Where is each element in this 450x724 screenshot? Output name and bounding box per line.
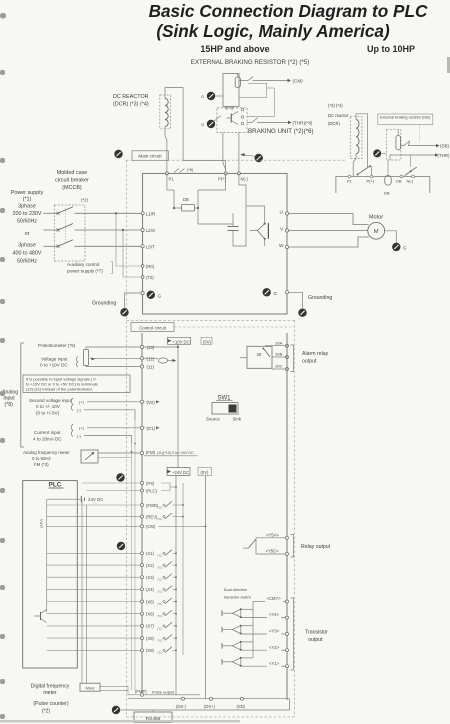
svg-text:(X1): (X1) (146, 551, 155, 556)
svg-text:(DCR) (*3) (*4): (DCR) (*3) (*4) (113, 102, 149, 108)
svg-text:Pulse output: Pulse output (152, 690, 175, 695)
svg-text:Source: Source (206, 417, 220, 422)
pin X3 (47, 576, 141, 578)
internal bus wires (197, 208, 199, 224)
svg-text:L3/T: L3/T (146, 244, 155, 249)
resistor DB mini (385, 176, 391, 186)
pin DX- (182, 697, 185, 700)
transistor Y4 (221, 610, 223, 616)
note box (23, 375, 130, 393)
wire W to motor (289, 237, 369, 247)
svg-text:(*11): (*11) (157, 639, 163, 643)
wire DCR2 top (356, 114, 368, 168)
signal symbol 12 (144, 357, 158, 359)
svg-text:(0 to +/-5V): (0 to +/-5V) (36, 410, 60, 415)
capacitor C (228, 226, 239, 228)
svg-text:Basic Connection Diagram to PL: Basic Connection Diagram to PLC (149, 1, 428, 21)
svg-text:3phase: 3phase (18, 204, 36, 210)
svg-text:G: G (158, 293, 162, 298)
wire DCR2 bottom (353, 154, 356, 177)
svg-text:(X3): (X3) (146, 575, 155, 580)
svg-text:output: output (302, 359, 317, 365)
main circuit label box (114, 150, 122, 158)
svg-text:PLC: PLC (49, 482, 62, 489)
wire CM (239, 77, 254, 81)
wire braking unit left leg to P(+) (223, 132, 226, 169)
svg-text:L2/S: L2/S (146, 228, 155, 233)
bus 24V (175, 476, 177, 696)
wire aux R0 (116, 213, 143, 266)
svg-text:(+): (+) (79, 401, 84, 405)
pin Y4 (241, 617, 267, 619)
wire N2 (410, 155, 412, 167)
potentiometer R pot (84, 350, 89, 366)
wires meter to FMP (100, 685, 128, 687)
svg-text:DC REACTOR: DC REACTOR (113, 94, 149, 100)
svg-text:(*1): (*1) (23, 197, 32, 203)
svg-text:Motor: Motor (369, 215, 383, 221)
svg-text:(*8): (*8) (5, 402, 14, 408)
svg-text:Transistor: Transistor (305, 630, 328, 636)
dashed frame mid (main circuit bottom) (127, 319, 297, 321)
svg-text:DB: DB (396, 178, 402, 183)
jumper DB-N (405, 167, 417, 176)
pin L2/S (141, 228, 144, 231)
svg-text:(PLC): (PLC) (146, 488, 158, 493)
pin L3/T (141, 245, 144, 248)
svg-text:Digital frequency: Digital frequency (31, 684, 70, 690)
svg-text:0 to +/- 10V: 0 to +/- 10V (36, 404, 61, 409)
svg-text:Up to 10HP: Up to 10HP (367, 44, 415, 54)
alarm relay K30 (247, 346, 272, 368)
svg-text:(DCR): (DCR) (328, 121, 340, 126)
grounding terminal left (141, 291, 144, 294)
svg-text:N(-): N(-) (241, 176, 249, 181)
svg-text:<CMY>: <CMY> (267, 596, 282, 601)
pin U (285, 212, 288, 215)
wire grounding left (125, 293, 142, 308)
pin L1/R (141, 212, 144, 215)
mini inverter box partial (336, 177, 430, 194)
transistor Q braking (230, 114, 232, 123)
arrow to ground at N wire (243, 155, 255, 156)
svg-text:(*3) (*4): (*3) (*4) (328, 103, 343, 108)
ground wire left of resistor box (215, 95, 223, 97)
ground symbol G2 (207, 120, 215, 128)
svg-text:DC reactor: DC reactor (328, 113, 349, 118)
svg-text:(+): (+) (79, 427, 84, 431)
svg-text:(0V): (0V) (203, 339, 212, 344)
wire V to motor (289, 230, 368, 232)
svg-text:(*11): (*11) (157, 651, 163, 655)
svg-text:W: W (279, 243, 284, 249)
jumper P1-P(+) (358, 166, 371, 175)
svg-text:(THR)(*8): (THR)(*8) (293, 120, 313, 125)
svg-text:(*11): (*11) (157, 517, 163, 521)
svg-text:Dual direction: Dual direction (224, 588, 247, 592)
svg-text:output: output (308, 637, 323, 643)
pin Y3 (241, 633, 267, 635)
svg-text:V: V (280, 227, 284, 233)
svg-text:(24V): (24V) (40, 519, 44, 528)
svg-text:0 to +10V DC: 0 to +10V DC (40, 363, 68, 368)
bus from 13 junction down (177, 347, 179, 468)
svg-text:(MCCB): (MCCB) (62, 185, 82, 191)
braking resistor DB2 dashed box (386, 130, 401, 160)
pin X8 (47, 637, 141, 639)
svg-text:<Y4>: <Y4> (269, 612, 280, 617)
inductor coil DCR (165, 99, 168, 127)
svg-text:(X6): (X6) (146, 612, 155, 617)
svg-text:BRAKING UNIT (*2)(*6): BRAKING UNIT (*2)(*6) (248, 128, 314, 135)
svg-text:Grounding: Grounding (308, 295, 332, 301)
breaker pole 3 (43, 245, 58, 247)
svg-text:or: or (25, 231, 30, 237)
svg-text:<Y2>: <Y2> (269, 645, 280, 650)
svg-text:Current input: Current input (34, 430, 61, 435)
pin FWD (47, 504, 141, 506)
pin X5 (47, 601, 141, 603)
svg-text:External braking resistor (DB): External braking resistor (DB) (380, 116, 431, 120)
svg-text:Control circuit: Control circuit (139, 326, 167, 331)
ground symbol G4 (373, 149, 381, 157)
scan smudges left edge (0, 13, 6, 719)
svg-text:200 to 230V: 200 to 230V (12, 211, 41, 217)
svg-text:(12)-(11) instead of the poten: (12)-(11) instead of the potentiometer. (26, 386, 93, 391)
svg-text:(C1): (C1) (147, 426, 156, 431)
pin X6 (47, 613, 141, 615)
ground symbol G3 (255, 154, 263, 162)
bus 0V (205, 476, 207, 699)
grounding terminal right (263, 288, 271, 296)
junction dots aux tap (115, 212, 117, 214)
battery 24V DC (80, 496, 82, 503)
svg-text:G: G (403, 246, 407, 251)
wire DX row (121, 699, 290, 710)
ground symbol bottom (112, 706, 120, 714)
svg-text:(*11): (*11) (157, 505, 163, 509)
svg-text:U: U (280, 210, 284, 216)
RS485 box (134, 712, 172, 723)
wire DCR bottom to P1 (165, 127, 167, 174)
label box External braking resistor (DB) (378, 114, 433, 125)
+24V DC supply box (167, 468, 190, 476)
pin Y2 (241, 649, 267, 651)
svg-text:(THR): (THR) (438, 153, 450, 158)
wire loop below CM (239, 83, 267, 97)
dashed frame left (126, 160, 128, 717)
relay Y5 (256, 537, 286, 539)
svg-text:(*11): (*11) (157, 590, 163, 594)
DC reactor DCR2 dashed box (350, 117, 362, 159)
inductor coil DCR2 (356, 119, 359, 153)
pin DX+ (210, 697, 213, 700)
inverter bridge U1 (267, 223, 269, 239)
svg-text:(*11): (*11) (157, 554, 163, 558)
svg-text:transistor switch: transistor switch (224, 596, 251, 600)
svg-text:(*11): (*11) (157, 614, 163, 618)
svg-text:<Y3>: <Y3> (269, 629, 280, 634)
svg-text:Power supply: Power supply (11, 190, 44, 196)
control circuit label box (131, 323, 174, 332)
svg-text:(CM): (CM) (293, 79, 304, 84)
svg-text:meter: meter (43, 690, 57, 696)
svg-text:(*11): (*11) (157, 566, 163, 570)
svg-text:FM (*3): FM (*3) (34, 462, 49, 467)
wire FM (98, 452, 142, 454)
svg-text:(11)(*10) 0 to +10V DC: (11)(*10) 0 to +10V DC (157, 451, 194, 455)
svg-text:15HP and above: 15HP and above (200, 44, 269, 54)
pin N(-) (237, 172, 240, 175)
pin 30A (265, 345, 287, 347)
svg-text:50/60Hz: 50/60Hz (17, 219, 37, 225)
svg-text:30C: 30C (275, 364, 282, 369)
resistor DB external (235, 77, 240, 88)
svg-text:(DX+): (DX+) (204, 704, 216, 709)
svg-text:(*11): (*11) (157, 626, 163, 630)
bus sink (182, 483, 184, 655)
pin CM (47, 525, 141, 527)
dashed frame top (126, 159, 345, 161)
pin V2 (140, 400, 143, 403)
svg-text:(X4): (X4) (146, 587, 155, 592)
svg-text:P(+): P(+) (367, 178, 375, 183)
alarm bracket (291, 345, 294, 372)
external braking resistor box (223, 74, 239, 107)
inverter main box (143, 173, 287, 314)
transistor Y1 (221, 659, 223, 665)
pin PS (82, 482, 140, 484)
wire U to motor (289, 214, 369, 225)
svg-text:Sink: Sink (233, 417, 242, 422)
svg-text:(X5): (X5) (146, 599, 155, 604)
svg-text:+10V DC: +10V DC (173, 339, 190, 344)
svg-text:P1: P1 (347, 178, 353, 183)
pin Y1 (241, 665, 267, 667)
meter FM box (81, 450, 98, 463)
pin CMY (253, 601, 265, 603)
svg-text:(DX-): (DX-) (176, 704, 187, 709)
pin 30B (272, 356, 287, 358)
ground electrode right (298, 309, 306, 317)
svg-text:<Y5C>: <Y5C> (266, 549, 280, 554)
svg-text:Main circuit: Main circuit (138, 154, 162, 159)
svg-text:Second voltage input: Second voltage input (29, 398, 73, 403)
PLC internal buses (46, 499, 48, 612)
svg-text:30A: 30A (275, 341, 282, 346)
svg-text:(FMP): (FMP) (135, 689, 147, 694)
svg-text:circuit breaker: circuit breaker (55, 178, 89, 184)
transistor Y2 (221, 643, 223, 649)
svg-text:(X9): (X9) (146, 648, 155, 653)
ground electrode left (120, 308, 128, 316)
svg-text:24V DC: 24V DC (88, 497, 103, 502)
svg-text:400 to 480V: 400 to 480V (12, 251, 41, 257)
svg-text:(DB): (DB) (440, 144, 450, 149)
svg-text:4 to 20mA DC: 4 to 20mA DC (33, 437, 62, 442)
svg-text:G: G (201, 122, 204, 127)
svg-text:DB: DB (384, 191, 390, 196)
+10V DC supply box (168, 337, 191, 344)
svg-text:power supply (*7): power supply (*7) (67, 269, 103, 274)
wire braking unit right (247, 88, 274, 116)
svg-text:(*2): (*2) (81, 198, 89, 203)
pin W (285, 245, 288, 248)
svg-text:input: input (4, 396, 16, 402)
svg-text:(*11): (*11) (157, 602, 163, 606)
transistor Y3 (221, 627, 223, 633)
right rail (286, 333, 288, 700)
svg-text:(Sink Logic, Mainly America): (Sink Logic, Mainly America) (156, 21, 390, 41)
svg-text:(SD): (SD) (237, 704, 246, 709)
braking unit dashed box (217, 108, 247, 132)
meter 60Hz box (80, 683, 100, 691)
breaker pole 1 (43, 212, 58, 214)
pin X4 (47, 588, 141, 590)
wire DCR top loop (165, 88, 226, 174)
pin PLC (87, 490, 141, 492)
pin C1 (140, 426, 143, 429)
svg-text:60Hz: 60Hz (85, 685, 94, 690)
pin X1 (47, 552, 141, 554)
svg-text:30: 30 (257, 352, 262, 357)
pin P1 (165, 172, 168, 175)
pin 30C (272, 368, 287, 370)
svg-text:G: G (201, 94, 204, 99)
pin SD (241, 697, 244, 700)
wire braking unit N leg (238, 132, 240, 173)
wire grounding right (289, 292, 303, 308)
svg-text:G: G (274, 291, 278, 296)
svg-text:50/60Hz: 50/60Hz (17, 259, 37, 265)
svg-text:Relay output: Relay output (301, 544, 331, 550)
svg-text:(X7): (X7) (146, 624, 155, 629)
pin 13 (140, 345, 143, 348)
svg-text:Alarm relay: Alarm relay (302, 351, 329, 357)
terminal ticks mini box (348, 175, 351, 178)
ground wire to braking unit (214, 116, 222, 122)
pin P(+) (224, 172, 227, 175)
svg-text:(*8): (*8) (187, 168, 194, 172)
svg-text:(R0): (R0) (146, 264, 155, 269)
breaker linkage (65, 208, 67, 244)
pin R0 (141, 265, 144, 268)
dashed frame right (294, 320, 296, 717)
analog input bracket (21, 343, 24, 447)
pin Y5C (286, 553, 289, 556)
wire THR2 (390, 155, 435, 160)
svg-text:EXTERNAL BRAKING RESISTOR (*2): EXTERNAL BRAKING RESISTOR (*2) (*5) (191, 59, 310, 66)
PLC box (23, 481, 78, 668)
ground symbol G motor (392, 243, 400, 251)
svg-text:0 to 60Hz: 0 to 60Hz (32, 456, 51, 461)
svg-text:(-): (-) (77, 435, 82, 439)
svg-text:M: M (374, 229, 379, 235)
svg-text:Molded case: Molded case (57, 170, 88, 176)
svg-text:(V2): (V2) (147, 400, 156, 405)
pin FM (140, 451, 143, 454)
wire pot top to 13 (86, 347, 142, 350)
svg-text:(PS): (PS) (146, 481, 155, 486)
svg-text:(Pulse counter): (Pulse counter) (33, 701, 68, 707)
pin 12 (140, 357, 143, 360)
control terminal rail (141, 333, 143, 693)
svg-text:Analog frequency meter: Analog frequency meter (23, 450, 70, 455)
jumper ticks (174, 169, 179, 173)
svg-text:(0V): (0V) (201, 470, 210, 475)
svg-text:Grounding: Grounding (92, 301, 116, 307)
pin V (285, 229, 288, 232)
svg-text:<Y1>: <Y1> (269, 661, 280, 666)
svg-text:<Y5A>: <Y5A> (266, 532, 279, 537)
ground shield symbol upper (116, 473, 124, 481)
svg-text:Potentiometer (*5): Potentiometer (*5) (38, 343, 76, 348)
ground shield symbol lower (117, 542, 125, 550)
svg-text:Auxiliary control: Auxiliary control (67, 262, 99, 267)
svg-text:3phase: 3phase (18, 243, 36, 249)
svg-text:30B: 30B (275, 352, 282, 357)
motor M (368, 222, 385, 239)
svg-text:L1/R: L1/R (146, 211, 156, 216)
ground symbol G1 (207, 92, 215, 100)
pin FMP (141, 693, 144, 696)
wire CMY bus (252, 602, 254, 658)
pin X7 (47, 625, 141, 627)
svg-text:(T0): (T0) (146, 275, 154, 280)
resistor DB2 (396, 136, 401, 150)
wire pot wiper to 12 (99, 357, 142, 359)
svg-text:(-): (-) (77, 409, 82, 413)
svg-text:(11): (11) (147, 365, 155, 370)
svg-text:P1: P1 (169, 176, 175, 181)
shield wires down (134, 420, 136, 690)
pin Y5A (286, 536, 289, 539)
svg-text:(X2): (X2) (146, 563, 155, 568)
pin T0 (141, 276, 144, 279)
svg-text:(FM): (FM) (146, 450, 156, 455)
wire 13 to supply (144, 346, 178, 348)
pin X9 (47, 649, 141, 651)
wire aux T0 (123, 230, 143, 277)
svg-text:(13): (13) (147, 345, 155, 350)
svg-text:(12): (12) (147, 356, 155, 361)
svg-text:N(-): N(-) (407, 178, 415, 183)
svg-text:Voltage input: Voltage input (41, 357, 68, 362)
svg-text:(*11): (*11) (157, 578, 163, 582)
DC reactor DCR dashed box (160, 95, 171, 129)
pin REV (47, 516, 141, 518)
wire DB right (401, 141, 436, 145)
pin 11 (140, 365, 143, 368)
wire motor ground (385, 231, 397, 243)
svg-text:DB: DB (183, 197, 189, 202)
svg-text:(CM): (CM) (146, 524, 156, 529)
svg-text:(*2): (*2) (42, 709, 51, 715)
wire THR (247, 118, 258, 123)
breaker pole 2 (43, 229, 58, 231)
pin X2 (47, 564, 141, 566)
transistor PLC out (40, 612, 42, 620)
dashed frame bottom (127, 716, 295, 718)
wire pot bottom to 11 (86, 366, 142, 367)
svg-text:(X8): (X8) (146, 636, 155, 641)
svg-text:+24V DC: +24V DC (172, 470, 189, 475)
MCCB dashed box (54, 205, 85, 261)
